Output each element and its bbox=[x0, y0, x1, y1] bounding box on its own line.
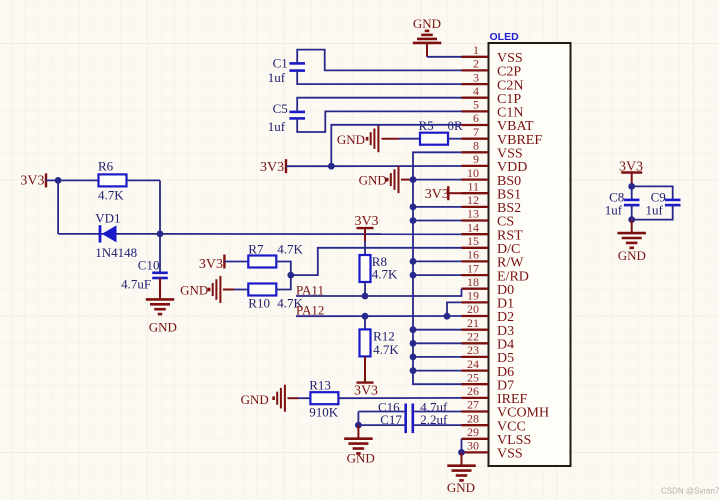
svg-text:4.7K: 4.7K bbox=[373, 342, 399, 357]
svg-text:GND: GND bbox=[347, 451, 375, 466]
svg-text:19: 19 bbox=[467, 289, 479, 303]
wire C10 to ground bbox=[159, 278, 161, 299]
ground (earth) C16/C17 bbox=[344, 437, 373, 440]
svg-text:21: 21 bbox=[467, 316, 479, 330]
junction bus pin 22 bbox=[410, 340, 417, 347]
wire C16 to pin 27 VCOMH bbox=[413, 411, 462, 413]
junction bus pin 12 bbox=[410, 204, 417, 211]
junction R8/PA11 bbox=[362, 293, 369, 300]
wire bus to pin 24 D6 bbox=[413, 370, 462, 372]
capacitor C8 bbox=[624, 199, 640, 202]
pin 10 BS0 bbox=[462, 178, 489, 180]
resistor R12 bbox=[360, 329, 371, 356]
resistor R6 bbox=[99, 174, 127, 186]
svg-text:9: 9 bbox=[473, 152, 479, 166]
ground (earth, flipped) top bbox=[413, 42, 442, 45]
pin 11 BS1 bbox=[462, 192, 489, 194]
svg-text:1uf: 1uf bbox=[605, 203, 623, 218]
junction RST node bbox=[157, 231, 164, 238]
wire to C8 top bbox=[631, 186, 633, 200]
wire GND port stem R10 bbox=[223, 289, 234, 291]
diode VD1 bbox=[99, 225, 102, 242]
junction 3V3/VD1 branch bbox=[55, 177, 62, 184]
resistor R7 bbox=[248, 256, 276, 268]
pin 18 D0 bbox=[462, 288, 489, 290]
svg-text:3V3: 3V3 bbox=[20, 174, 44, 189]
pin 3 C2N bbox=[462, 83, 489, 85]
junction C8/C9 bottom bbox=[628, 216, 635, 223]
wire tie to ground bbox=[357, 425, 359, 439]
svg-text:24: 24 bbox=[467, 357, 479, 371]
wire to ground C8/C9 bbox=[631, 220, 633, 234]
svg-text:27: 27 bbox=[467, 398, 479, 412]
svg-text:R10: R10 bbox=[248, 296, 270, 311]
wire C16/C17 tie bbox=[357, 412, 359, 426]
wire GND to R5 bbox=[399, 138, 420, 140]
wire PA12 up to pin 19 D1 bbox=[447, 302, 462, 316]
wire C17 left bbox=[358, 424, 405, 426]
svg-text:4: 4 bbox=[473, 84, 479, 98]
junction divider node bbox=[287, 272, 294, 279]
pin 17 E/RD bbox=[462, 274, 489, 276]
ground (earth) pin30 bbox=[447, 464, 476, 467]
wire 3V3 to R7 bbox=[224, 261, 248, 263]
wire node up to pin 6 VBAT bbox=[331, 125, 461, 166]
svg-text:15: 15 bbox=[467, 234, 479, 248]
wire to ground pin30 bbox=[461, 452, 463, 465]
svg-text:GND: GND bbox=[413, 16, 441, 31]
junction bus pin 13 bbox=[410, 217, 417, 224]
wire R10 to divider node bbox=[276, 275, 291, 289]
pin 4 C1P bbox=[462, 97, 489, 99]
wire GND to R10 bbox=[234, 289, 248, 291]
svg-text:910K: 910K bbox=[309, 405, 339, 420]
wire GND port stem R13 bbox=[288, 397, 299, 399]
pin 8 VSS bbox=[462, 151, 489, 153]
svg-text:7: 7 bbox=[473, 125, 479, 139]
wire to pin 9 VDD bbox=[331, 165, 461, 167]
svg-text:11: 11 bbox=[467, 179, 479, 193]
pin 28 VCC bbox=[462, 424, 489, 426]
wire bus to pin 22 D4 bbox=[413, 342, 462, 344]
pin 26 IREF bbox=[462, 397, 489, 399]
wire bus to pin 13 CS bbox=[413, 220, 462, 222]
svg-text:OLED: OLED bbox=[490, 31, 520, 43]
wire C9 bottom bbox=[632, 205, 673, 220]
wire to pin 1 VSS bbox=[427, 56, 462, 58]
svg-text:13: 13 bbox=[467, 207, 479, 221]
wire R5 to pin 7 VBREF bbox=[448, 138, 462, 140]
junction bus pin 16 bbox=[410, 258, 417, 265]
wire down to RST node bbox=[159, 180, 161, 234]
pin 13 CS bbox=[462, 219, 489, 221]
pin 30 VSS bbox=[462, 451, 489, 453]
wire bus to pin 10 BS0 bbox=[413, 179, 462, 181]
svg-text:4.7K: 4.7K bbox=[98, 188, 124, 203]
ground (earth) C8/C9 bbox=[617, 232, 646, 235]
wire to C9 top bbox=[632, 186, 673, 200]
svg-text:3V3: 3V3 bbox=[199, 257, 223, 272]
junction C16/C17 ground bbox=[355, 422, 362, 429]
pin 20 D2 bbox=[462, 315, 489, 317]
pin 6 VBAT bbox=[462, 124, 489, 126]
pin 29 VLSS bbox=[462, 438, 489, 440]
capacitor C5 bbox=[289, 111, 305, 114]
wire R6 to node bbox=[127, 179, 161, 181]
wire 3V3 to R6 bbox=[46, 179, 98, 181]
wire C1 bottom to pin 3 C2N bbox=[297, 71, 461, 85]
pin 27 VCOMH bbox=[462, 410, 489, 412]
wire GND port stem bbox=[382, 138, 400, 140]
wire RST node to pin 14 RST bbox=[160, 233, 462, 235]
resistor R5 bbox=[420, 133, 448, 145]
wire C1 top to pin 2 C2P bbox=[297, 50, 461, 71]
pin 5 C1N bbox=[462, 110, 489, 112]
wire bus to pin 21 D3 bbox=[413, 329, 462, 331]
junction bus pin 21 bbox=[410, 326, 417, 333]
svg-text:22: 22 bbox=[467, 330, 479, 344]
svg-text:30: 30 bbox=[467, 439, 479, 453]
svg-text:C10: C10 bbox=[138, 258, 160, 273]
svg-text:16: 16 bbox=[467, 248, 479, 262]
svg-text:3V3: 3V3 bbox=[354, 384, 378, 399]
junction bus pin 24 bbox=[410, 367, 417, 374]
wire node to pin 15 D/C bbox=[291, 248, 462, 275]
pin 19 D1 bbox=[462, 301, 489, 303]
svg-text:VSS: VSS bbox=[497, 447, 523, 462]
pin 1 VSS bbox=[462, 56, 489, 58]
pin 16 R/W bbox=[462, 260, 489, 262]
svg-text:8: 8 bbox=[473, 139, 479, 153]
svg-text:1uf: 1uf bbox=[268, 70, 286, 85]
svg-text:3: 3 bbox=[473, 70, 479, 84]
ground (earth) C10 bbox=[146, 298, 175, 301]
svg-text:PA12: PA12 bbox=[296, 302, 324, 317]
svg-text:3V3: 3V3 bbox=[260, 160, 284, 175]
wire node to C10 bbox=[159, 234, 161, 273]
svg-text:VD1: VD1 bbox=[95, 211, 120, 226]
pin 9 VDD bbox=[462, 165, 489, 167]
pin 7 VBREF bbox=[462, 138, 489, 140]
wire GND to R13 bbox=[298, 397, 310, 399]
junction bus pin 10 bbox=[410, 176, 417, 183]
wire C5 bottom to pin 5 C1N bbox=[297, 111, 461, 132]
junction pin30 VSS bbox=[458, 449, 465, 456]
wire R7 to divider node bbox=[276, 262, 291, 276]
svg-text:29: 29 bbox=[467, 425, 479, 439]
svg-text:4.7K: 4.7K bbox=[277, 242, 303, 257]
wire PA12 to R12 bbox=[364, 316, 366, 329]
junction bus pin 23 bbox=[410, 354, 417, 361]
pin 24 D6 bbox=[462, 369, 489, 371]
svg-text:GND: GND bbox=[180, 283, 208, 298]
svg-text:2: 2 bbox=[473, 57, 479, 71]
svg-text:5: 5 bbox=[473, 98, 479, 112]
resistor R8 bbox=[360, 255, 371, 282]
svg-text:GND: GND bbox=[337, 132, 365, 147]
junction bus pin 17 bbox=[410, 272, 417, 279]
wire R8 to PA11 line bbox=[364, 282, 366, 296]
pin 12 BS2 bbox=[462, 206, 489, 208]
svg-text:1: 1 bbox=[473, 43, 479, 57]
svg-text:3V3: 3V3 bbox=[354, 214, 378, 229]
pin 23 D5 bbox=[462, 356, 489, 358]
svg-text:10: 10 bbox=[467, 166, 479, 180]
svg-text:25: 25 bbox=[467, 370, 479, 384]
wire diode line bbox=[58, 233, 160, 235]
resistor R13 bbox=[310, 392, 338, 404]
svg-text:23: 23 bbox=[467, 343, 479, 357]
svg-text:4.7K: 4.7K bbox=[372, 267, 398, 282]
svg-text:1N4148: 1N4148 bbox=[95, 245, 137, 260]
wire GND stem to pin1 row bbox=[426, 43, 428, 57]
wire 3V3 stem C8 bbox=[631, 173, 633, 187]
wire R13 to pin 26 IREF bbox=[338, 397, 461, 399]
pin 14 RST bbox=[462, 233, 489, 235]
capacitor C9 bbox=[665, 199, 681, 202]
svg-text:4.7uF: 4.7uF bbox=[121, 277, 151, 292]
wire 3V3 stem R8 bbox=[364, 228, 366, 241]
wire C17 to pin 28 VCC bbox=[413, 424, 462, 426]
wire C16 left bbox=[358, 411, 405, 413]
svg-text:14: 14 bbox=[467, 220, 479, 234]
svg-text:26: 26 bbox=[467, 384, 479, 398]
junction VDD node bbox=[328, 163, 335, 170]
wire bus to pin 23 D5 bbox=[413, 356, 462, 358]
junction D1/D2 bbox=[444, 313, 451, 320]
wire GND bus vertical bbox=[413, 152, 462, 384]
svg-text:R7: R7 bbox=[248, 242, 264, 257]
svg-text:GND: GND bbox=[359, 173, 387, 188]
svg-text:C1: C1 bbox=[273, 56, 288, 71]
wire PA12 to pin 20 D2 bbox=[296, 315, 462, 317]
capacitor C1 bbox=[289, 62, 305, 65]
svg-text:R6: R6 bbox=[98, 159, 114, 174]
wire stem to R8 bbox=[364, 241, 366, 255]
svg-text:GND: GND bbox=[447, 480, 475, 495]
capacitor C17 bbox=[404, 417, 407, 433]
capacitor C16 bbox=[404, 404, 407, 420]
svg-text:GND: GND bbox=[149, 320, 177, 335]
wire 3V3 to node VDD bbox=[286, 165, 331, 167]
svg-text:18: 18 bbox=[467, 275, 479, 289]
wire bus to pin 16 R/W bbox=[413, 260, 462, 262]
svg-text:C5: C5 bbox=[273, 101, 288, 116]
junction C8/C9 top bbox=[628, 183, 635, 190]
svg-text:GND: GND bbox=[618, 248, 646, 263]
wire bus to pin 17 E/RD bbox=[413, 274, 462, 276]
svg-text:20: 20 bbox=[467, 302, 479, 316]
pin 21 D3 bbox=[462, 329, 489, 331]
wire C5 top to pin 4 C1P bbox=[297, 98, 461, 112]
svg-text:R13: R13 bbox=[309, 378, 331, 393]
svg-text:17: 17 bbox=[467, 261, 479, 275]
svg-text:CSDN @Svran7: CSDN @Svran7 bbox=[661, 487, 719, 496]
wire C8 bottom bbox=[631, 205, 633, 220]
pin 25 D7 bbox=[462, 383, 489, 385]
svg-text:28: 28 bbox=[467, 411, 479, 425]
wire pin 29 VLSS down bbox=[461, 439, 463, 453]
pin 22 D4 bbox=[462, 342, 489, 344]
svg-text:GND: GND bbox=[241, 392, 269, 407]
wire R12 to 3V3 bar bbox=[364, 356, 366, 382]
resistor R10 bbox=[248, 284, 276, 296]
svg-text:1uf: 1uf bbox=[646, 203, 664, 218]
svg-text:12: 12 bbox=[467, 193, 479, 207]
wire down to diode line bbox=[57, 180, 59, 234]
wire PA11 to pin 18 D0 bbox=[296, 289, 462, 296]
capacitor C10 bbox=[152, 271, 168, 274]
wire GND port stem to bus bbox=[401, 179, 413, 181]
svg-text:3V3: 3V3 bbox=[425, 187, 449, 202]
svg-text:6: 6 bbox=[473, 111, 479, 125]
connector J? OLED box bbox=[489, 43, 571, 466]
pin 15 D/C bbox=[462, 247, 489, 249]
junction R12/PA12 bbox=[362, 313, 369, 320]
pin 2 C2P bbox=[462, 69, 489, 71]
wire 3V3 to pin 11 BS1 bbox=[448, 192, 461, 194]
svg-text:1uf: 1uf bbox=[268, 119, 286, 134]
wire bus to pin 12 BS2 bbox=[413, 206, 462, 208]
